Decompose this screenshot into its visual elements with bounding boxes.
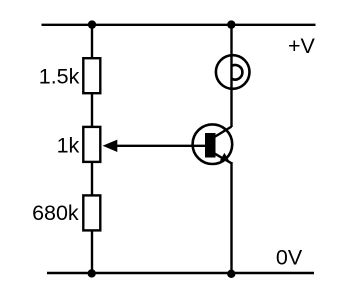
svg-text:1k: 1k (57, 133, 80, 157)
svg-text:680k: 680k (32, 201, 79, 225)
svg-text:+V: +V (288, 34, 316, 58)
svg-text:1.5k: 1.5k (39, 64, 80, 88)
svg-text:0V: 0V (276, 246, 303, 270)
